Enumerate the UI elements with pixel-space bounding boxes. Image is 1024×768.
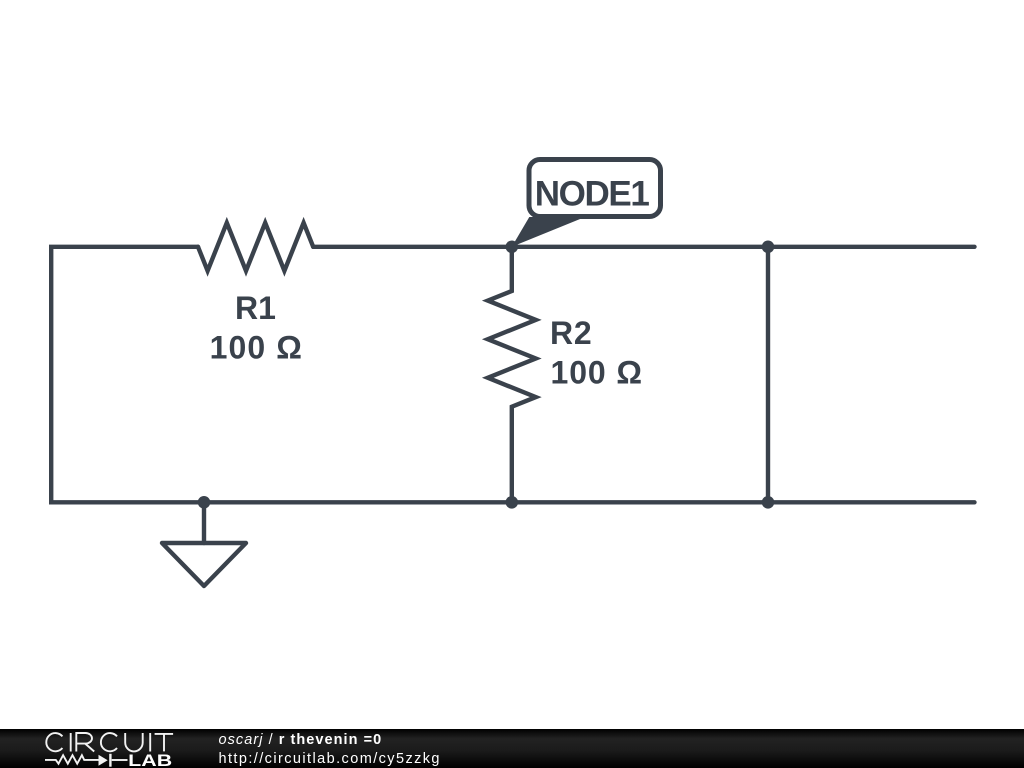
svg-text:R2: R2: [550, 315, 593, 351]
letter C: [101, 733, 117, 751]
letter C: [46, 733, 62, 751]
ground: [202, 502, 206, 543]
node dot: right branch bottom junction: [762, 496, 775, 509]
node dot: NODE1 on top wire: [506, 241, 519, 254]
node dot: ground junction on bottom wire: [198, 496, 211, 509]
letter R: [76, 733, 94, 752]
resistor R2 (vertical) with leads: [488, 247, 536, 502]
wire: top wire right of R1: [313, 245, 974, 249]
svg-text:NODE1: NODE1: [535, 174, 650, 213]
svg-text:oscarj / r thevenin =0: oscarj / r thevenin =0: [219, 732, 383, 748]
svg-text:100 Ω: 100 Ω: [210, 330, 303, 366]
svg-text:LAB: LAB: [128, 751, 172, 768]
svg-text:100 Ω: 100 Ω: [551, 354, 643, 390]
logo wire to LAB: [112, 759, 128, 761]
node A callout tail: [512, 217, 585, 247]
wire: left loop (top-left corner, left side, bottom wire): [51, 247, 974, 502]
letter U: [125, 733, 143, 751]
resistor R1: [198, 223, 313, 271]
logo resistor zigzag symbol: [45, 755, 99, 764]
node dot: R2 bottom junction: [506, 496, 519, 509]
logo diode triangle: [99, 755, 108, 766]
node A label callout box NODE1: [529, 160, 661, 217]
logo CIRCUIT lettering (hand-drawn thin strokes): [46, 733, 173, 752]
node dot: top wire at right branch: [762, 241, 775, 254]
logo diode bar: [109, 754, 111, 767]
letter I: [70, 733, 72, 752]
letter T: [155, 734, 174, 752]
wire: right vertical wire: [766, 247, 770, 502]
svg-text:R1: R1: [235, 290, 276, 326]
svg-text:http://circuitlab.com/cy5zzkg: http://circuitlab.com/cy5zzkg: [219, 751, 440, 767]
letter I: [149, 733, 151, 752]
